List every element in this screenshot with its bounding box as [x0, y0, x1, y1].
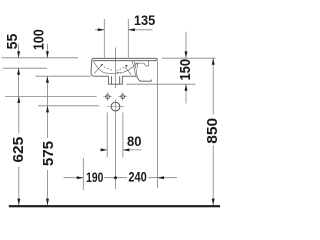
wire dim55 line — [18, 44, 20, 96]
node arrow625 up — [17, 96, 20, 103]
washbasin back bottom — [137, 76, 152, 81]
washbasin drain pipe walls — [112, 76, 120, 84]
wire dim80 line — [100, 149, 142, 151]
washbasin drain boss — [109, 76, 123, 84]
wire dim150 line — [185, 32, 187, 104]
node arrow850 up — [212, 58, 215, 65]
node arrow190 — [77, 176, 84, 179]
node arrow575 down — [46, 199, 49, 206]
wire dim100 line — [46, 44, 48, 106]
svg-text:625: 625 — [10, 137, 27, 163]
washbasin right level wedge — [125, 65, 128, 68]
washbasin bottom hidden dashes — [114, 72, 122, 74]
node arrow150 down — [185, 51, 188, 58]
supply connection right circle — [121, 95, 125, 99]
node arrow55 up — [17, 68, 20, 75]
node arrow240 — [158, 176, 165, 179]
wire ext rim-right — [162, 57, 216, 59]
washbasin left dashed arc — [104, 67, 113, 71]
wire ext drain axis down — [115, 113, 117, 189]
washbasin left check line — [94, 65, 101, 73]
washbasin left level wedge — [101, 64, 104, 67]
svg-text:850: 850 — [204, 118, 220, 144]
svg-text:150: 150 — [176, 59, 193, 81]
washbasin bottom front — [94, 75, 108, 77]
svg-text:55: 55 — [5, 34, 21, 50]
node supply left crosshair — [103, 92, 112, 101]
wire ext 55-ref — [3, 67, 47, 69]
washbasin bowl back wall — [134, 61, 137, 76]
washbasin overflow slot edge — [137, 63, 139, 68]
node arrow850 down — [212, 199, 215, 206]
svg-text:100: 100 — [30, 29, 46, 50]
node arrow80 left — [101, 148, 108, 151]
node drain crosshair — [107, 99, 124, 113]
wire ext boss-bottom — [127, 83, 196, 85]
washbasin right dashed arc — [117, 67, 125, 71]
node arrow575 up — [46, 106, 49, 113]
wire dim850 line — [212, 58, 214, 205]
supply connection left circle — [106, 95, 110, 99]
washbasin bowl inner right — [116, 63, 138, 73]
svg-text:240: 240 — [128, 169, 146, 184]
node arrow135 left — [98, 28, 105, 31]
washbasin right check line — [125, 67, 131, 75]
wire ext 80-left — [106, 113, 108, 158]
node dot chain junction — [114, 176, 117, 179]
washbasin deck step — [134, 61, 148, 66]
node arrow100 down — [46, 51, 49, 58]
washbasin bottom mid — [122, 75, 137, 77]
wire axis top — [115, 48, 117, 89]
node arrow80 right — [123, 148, 129, 151]
wire dim625 line — [18, 96, 20, 205]
svg-text:575: 575 — [40, 141, 57, 166]
wire ext 135-right — [127, 19, 129, 58]
washbasin rim section — [93, 58, 158, 60]
drain connection circle — [111, 102, 120, 111]
wire ext rim-left — [2, 57, 79, 59]
wire dim135 line — [95, 29, 152, 31]
washbasin front edge — [91, 58, 95, 76]
node arrow55 down — [17, 51, 20, 58]
svg-text:80: 80 — [127, 134, 141, 149]
wire dim190-240 line — [64, 177, 178, 179]
wire dim575 line — [47, 106, 49, 205]
wire ext 135-left — [103, 19, 105, 58]
washbasin bowl inner left — [93, 62, 113, 74]
wire ext drain-level — [38, 105, 99, 107]
wire floor line — [9, 205, 220, 207]
wire ext 100-ref — [36, 75, 91, 77]
svg-text:190: 190 — [86, 169, 103, 185]
node supply right crosshair — [118, 92, 127, 101]
wire ext 80-right — [122, 113, 124, 158]
wire ext 190-left — [82, 158, 84, 190]
node arrow135 right — [128, 28, 135, 31]
washbasin bowl back wall inner — [132, 61, 136, 76]
node arrow625 down — [17, 199, 20, 206]
wire wall line — [157, 61, 159, 188]
wire ext supply-level — [5, 95, 97, 97]
node arrow100 up — [46, 76, 49, 83]
node arrow150 up — [185, 84, 188, 91]
svg-text:135: 135 — [134, 13, 156, 29]
